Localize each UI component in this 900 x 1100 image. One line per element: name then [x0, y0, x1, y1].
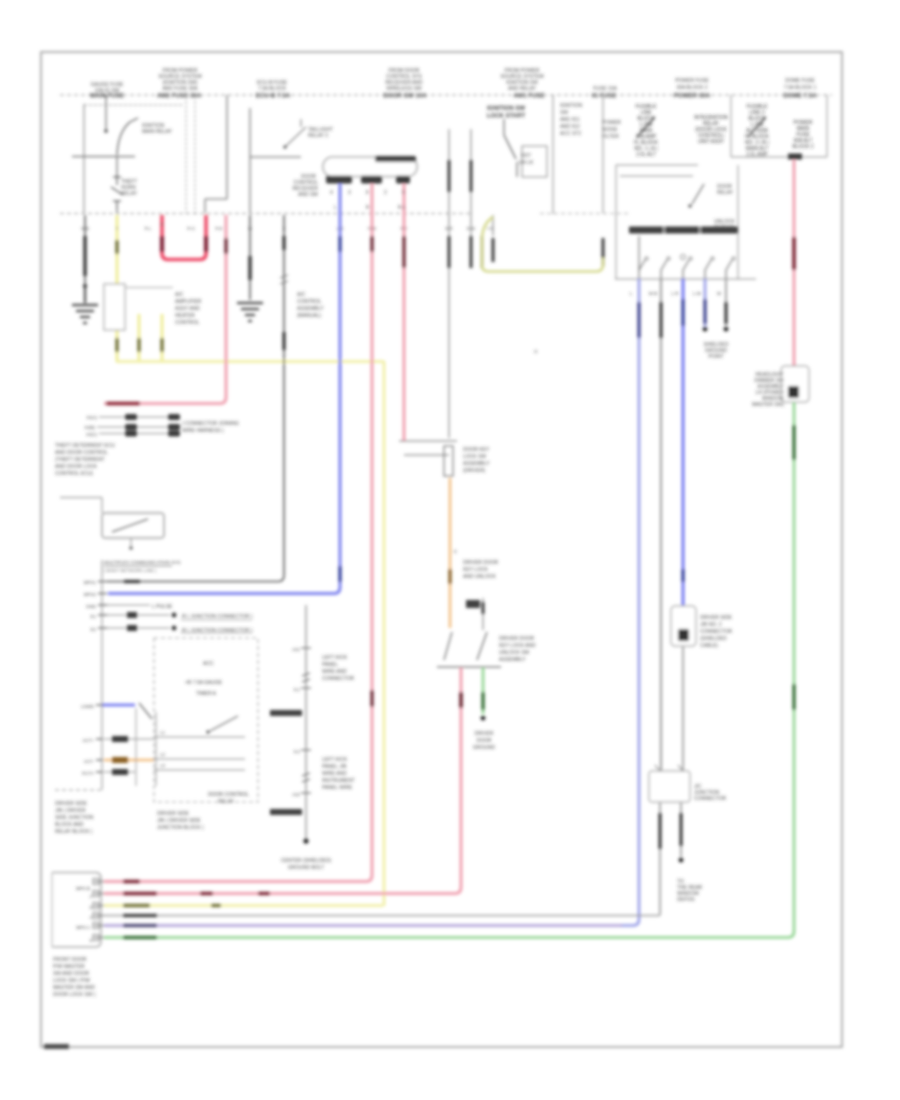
svg-text:(DRIVER): (DRIVER): [463, 468, 486, 474]
svg-text:AND UNLOCK: AND UNLOCK: [463, 574, 496, 580]
svg-text:DOOR: DOOR: [477, 738, 492, 744]
svg-text:(MANUAL): (MANUAL): [297, 313, 322, 319]
svg-text:Y-G: Y-G: [486, 226, 493, 231]
svg-text:7.5A BLOCK: 7.5A BLOCK: [258, 86, 287, 92]
svg-text:BLOCK AND: BLOCK AND: [55, 822, 84, 828]
svg-text:L-R: L-R: [671, 291, 679, 296]
svg-text:B-W: B-W: [467, 226, 475, 231]
svg-text:AM2 IG2: AM2 IG2: [560, 124, 580, 130]
svg-text:DRIVER DOOR: DRIVER DOOR: [499, 636, 535, 642]
svg-text:ACT-: ACT-: [84, 759, 95, 764]
svg-text:E2: E2: [90, 627, 96, 632]
svg-text:( CONNECTOR JOINING: ( CONNECTOR JOINING: [182, 421, 239, 427]
svg-text:DRIVER: DRIVER: [475, 731, 494, 737]
svg-text:KEY LOCK: KEY LOCK: [463, 567, 489, 573]
svg-text:MAIN RELAY: MAIN RELAY: [142, 129, 173, 135]
svg-text:W-B: W-B: [649, 291, 658, 296]
svg-text:L1: L1: [160, 730, 166, 735]
svg-text:MPX2: MPX2: [84, 592, 97, 597]
svg-text:AM2 FUSE 30A: AM2 FUSE 30A: [162, 86, 198, 92]
svg-text:Y: Y: [116, 226, 119, 231]
svg-text:DRIVER DOOR: DRIVER DOOR: [463, 560, 499, 566]
svg-text:GROUND BOLT: GROUND BOLT: [288, 865, 324, 871]
svg-text:J/B ( DRIVER SIDE: J/B ( DRIVER SIDE: [157, 818, 201, 824]
svg-text:ASSY AND: ASSY AND: [175, 306, 200, 312]
svg-text:KEY LOCK AND: KEY LOCK AND: [499, 643, 536, 649]
svg-text:PANEL J/B: PANEL J/B: [322, 764, 347, 770]
svg-text:LEFT KICK: LEFT KICK: [322, 757, 348, 763]
svg-text:DRIVER SIDE: DRIVER SIDE: [55, 801, 88, 807]
svg-text:NOISE: NOISE: [602, 127, 618, 133]
svg-text:SIDE JUNCTION: SIDE JUNCTION: [55, 815, 94, 821]
svg-text:KEY: KEY: [521, 153, 532, 159]
svg-text:DRIVER SIDE: DRIVER SIDE: [157, 811, 190, 817]
svg-text:R: R: [160, 222, 163, 227]
svg-text:R-B: R-B: [215, 226, 222, 231]
svg-text:L3: L3: [160, 763, 166, 768]
svg-text:ASSEMBLY: ASSEMBLY: [297, 306, 324, 312]
svg-text:TIMER A: TIMER A: [196, 691, 217, 697]
svg-text:30A BLOCK 2: 30A BLOCK 2: [676, 85, 707, 91]
svg-text:O: O: [534, 349, 538, 354]
svg-text:DOOR LOCK SW ): DOOR LOCK SW ): [53, 992, 96, 998]
svg-text:IGNITION SW: IGNITION SW: [487, 106, 525, 112]
svg-text:J/B NO. 2: J/B NO. 2: [700, 622, 722, 628]
svg-text:CENTER (SHIELDED): CENTER (SHIELDED): [281, 858, 332, 864]
svg-text:J/B ( DRIVER: J/B ( DRIVER: [55, 808, 86, 814]
svg-text:J6 ( JUNCTION CONNECTOR ): J6 ( JUNCTION CONNECTOR ): [181, 628, 253, 634]
svg-text:WIRE AND: WIRE AND: [322, 771, 347, 777]
svg-text:R-G: R-G: [187, 226, 195, 231]
svg-text:ACC: ACC: [203, 661, 214, 667]
svg-text:L PULSE: L PULSE: [152, 604, 173, 610]
svg-text:2.0L ALT: 2.0L ALT: [636, 152, 655, 158]
svg-text:A/C: A/C: [297, 292, 306, 298]
svg-text:POWER FUSE: POWER FUSE: [675, 78, 709, 84]
svg-text:SW AND DOOR: SW AND DOOR: [53, 971, 90, 977]
svg-text:WIRELESS SW: WIRELESS SW: [386, 86, 422, 92]
svg-text:ECU-B 7.5A: ECU-B 7.5A: [256, 93, 291, 100]
svg-text:7.5A BLOCK 1: 7.5A BLOCK 1: [784, 85, 817, 91]
svg-text:P/W MASTER: P/W MASTER: [53, 964, 85, 970]
svg-text:MPX1: MPX1: [84, 580, 97, 585]
svg-text:AM1 IG1: AM1 IG1: [560, 117, 580, 123]
svg-text:W: W: [248, 226, 252, 231]
svg-text:JUNCTION BLOCK ): JUNCTION BLOCK ): [157, 825, 204, 831]
svg-text:THEFT DETERRENT ECU: THEFT DETERRENT ECU: [55, 443, 115, 449]
svg-text:4: 4: [330, 190, 333, 196]
svg-text:HEATER: HEATER: [175, 313, 195, 319]
svg-text:UNLOCK SW: UNLOCK SW: [499, 650, 530, 656]
svg-text:IH(A): IH(A): [87, 415, 98, 420]
svg-text:CONNECTOR: CONNECTOR: [700, 629, 733, 635]
svg-text:DOOR SW 10A: DOOR SW 10A: [383, 93, 427, 100]
svg-text:E1: E1: [90, 614, 96, 619]
svg-text:LOCK SW: LOCK SW: [463, 454, 486, 460]
svg-text:B: B: [283, 226, 286, 231]
svg-text:LOCK SW ( P/W: LOCK SW ( P/W: [53, 978, 90, 984]
svg-text:L: L: [334, 205, 337, 211]
svg-text:RELAY: RELAY: [717, 190, 734, 196]
svg-text:AND SW: AND SW: [298, 192, 318, 198]
svg-text:RELAY: RELAY: [121, 191, 138, 197]
svg-text:2.0L AMP: 2.0L AMP: [746, 152, 768, 158]
svg-text:UN LK: UN LK: [519, 160, 534, 166]
svg-text:CONTROL: CONTROL: [297, 299, 322, 305]
svg-text:DEFOG: DEFOG: [677, 897, 695, 903]
svg-text:IGNITION: IGNITION: [560, 103, 583, 109]
svg-text:AND RELAY: AND RELAY: [508, 86, 537, 92]
svg-text:FUSE 15A: FUSE 15A: [593, 86, 617, 92]
svg-text:ASSEMBLY: ASSEMBLY: [499, 657, 526, 663]
svg-text:FILTER: FILTER: [602, 134, 619, 140]
svg-text:IL2: IL2: [294, 749, 301, 754]
svg-text:RELAY 2: RELAY 2: [308, 133, 328, 139]
svg-text:MASTER SW AND: MASTER SW AND: [53, 985, 95, 991]
svg-text:R-Y: R-Y: [400, 226, 407, 231]
svg-text:FRONT DOOR: FRONT DOOR: [53, 957, 87, 963]
svg-text:AND DOOR LOCK: AND DOOR LOCK: [55, 464, 98, 470]
svg-text:6: 6: [402, 190, 405, 196]
svg-text:LOCK START: LOCK START: [487, 114, 526, 120]
svg-text:DOOR CONTROL: DOOR CONTROL: [208, 792, 249, 798]
svg-text:CONTROL: CONTROL: [175, 320, 200, 326]
svg-text:BLOCK 2: BLOCK 2: [792, 144, 813, 150]
svg-text:IG FUSE: IG FUSE: [592, 93, 617, 100]
svg-text:MASTER SW): MASTER SW): [752, 402, 784, 408]
svg-text:AMPLIFIER: AMPLIFIER: [175, 299, 202, 305]
svg-text:R-L: R-L: [145, 226, 152, 231]
svg-text:PANEL: PANEL: [322, 662, 338, 668]
svg-text:INSTRUMENT: INSTRUMENT: [322, 778, 355, 784]
svg-text:J5 ( JUNCTION CONNECTOR ): J5 ( JUNCTION CONNECTOR ): [181, 614, 253, 620]
svg-text:A/C: A/C: [175, 292, 184, 298]
svg-text:GND: GND: [86, 604, 97, 609]
svg-text:CONTROL ECU): CONTROL ECU): [55, 471, 93, 477]
svg-text:POWER: POWER: [602, 120, 621, 126]
svg-text:WIRE AND: WIRE AND: [322, 669, 347, 675]
svg-text:R-W: R-W: [368, 226, 376, 231]
svg-text:( BODY NETWORK LINE ): ( BODY NETWORK LINE ): [104, 568, 157, 573]
svg-text:(THEFT DETERRENT: (THEFT DETERRENT: [55, 457, 105, 463]
svg-text:LEFT KICK: LEFT KICK: [322, 655, 348, 661]
svg-text:GROUND: GROUND: [473, 745, 496, 751]
svg-text:3: 3: [348, 190, 351, 196]
svg-text:POINT: POINT: [708, 354, 723, 360]
svg-text:+B 7.5A GAUGE: +B 7.5A GAUGE: [185, 680, 223, 686]
svg-text:R-L: R-L: [398, 205, 406, 211]
svg-text:ACC ST2: ACC ST2: [560, 131, 581, 137]
svg-text:DOME 7.5A: DOME 7.5A: [783, 93, 817, 100]
svg-text:O: O: [453, 549, 457, 554]
svg-text:ACT+: ACT+: [82, 738, 94, 743]
svg-text:CABLE): CABLE): [700, 643, 718, 649]
svg-text:POWER 30A: POWER 30A: [674, 93, 711, 100]
svg-text:MPX A: MPX A: [76, 925, 90, 930]
svg-text:RELAY: RELAY: [218, 799, 235, 805]
svg-text:MPX B: MPX B: [76, 886, 90, 891]
svg-text:CONNECTOR: CONNECTOR: [322, 676, 355, 682]
svg-text:R: R: [366, 205, 370, 211]
svg-text:DRIVER SIDE: DRIVER SIDE: [700, 615, 733, 621]
svg-text:L2: L2: [160, 752, 166, 757]
svg-text:10A IG SW: 10A IG SW: [95, 88, 120, 94]
svg-text:8: 8: [366, 190, 369, 196]
svg-text:L-O: L-O: [337, 226, 345, 231]
svg-text:PANEL WIRE: PANEL WIRE: [322, 785, 353, 791]
svg-text:LSWD: LSWD: [81, 704, 95, 709]
svg-text:IH(C): IH(C): [86, 432, 97, 437]
svg-text:(SHIELDED: (SHIELDED: [700, 636, 727, 642]
svg-text:IH(B): IH(B): [85, 425, 96, 430]
svg-text:W-B: W-B: [81, 226, 89, 231]
svg-text:PCTY: PCTY: [82, 771, 94, 776]
svg-text:B-R: B-R: [445, 226, 452, 231]
svg-text:CONNECTOR: CONNECTOR: [694, 796, 727, 802]
svg-text:UNIT ASSY: UNIT ASSY: [698, 139, 725, 145]
svg-text:L-W: L-W: [693, 291, 702, 296]
svg-text:IL1: IL1: [294, 687, 301, 692]
svg-text:A22: A22: [292, 792, 301, 797]
svg-text:WIRE HARNESS ): WIRE HARNESS ): [182, 428, 224, 434]
svg-text:A21: A21: [292, 647, 301, 652]
svg-text:SW: SW: [560, 110, 568, 116]
svg-text:DETECT: DETECT: [714, 225, 734, 231]
svg-text:2: 2: [384, 190, 387, 196]
svg-text:DOOR KEY: DOOR KEY: [463, 447, 490, 453]
svg-text:ASSEMBLY: ASSEMBLY: [463, 461, 490, 467]
svg-text:AND DOOR CONTROL: AND DOOR CONTROL: [55, 450, 108, 456]
svg-text:AM1 FUSE: AM1 FUSE: [513, 93, 544, 100]
svg-text:RELAY BLOCK ): RELAY BLOCK ): [55, 829, 93, 835]
svg-text:DOME FUSE: DOME FUSE: [785, 78, 815, 84]
svg-text:MULTIPLEX COMMUNICATION SYS: MULTIPLEX COMMUNICATION SYS: [104, 560, 180, 565]
